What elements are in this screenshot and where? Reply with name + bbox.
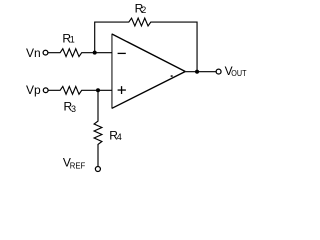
svg-text:4: 4: [117, 132, 122, 142]
svg-text:1: 1: [70, 35, 75, 45]
svg-text:2: 2: [141, 5, 146, 15]
svg-text:Vn: Vn: [26, 46, 41, 60]
svg-text:OUT: OUT: [231, 69, 246, 78]
svg-text:3: 3: [71, 104, 76, 114]
svg-text:REF: REF: [70, 161, 86, 170]
svg-text:Vp: Vp: [26, 83, 41, 97]
